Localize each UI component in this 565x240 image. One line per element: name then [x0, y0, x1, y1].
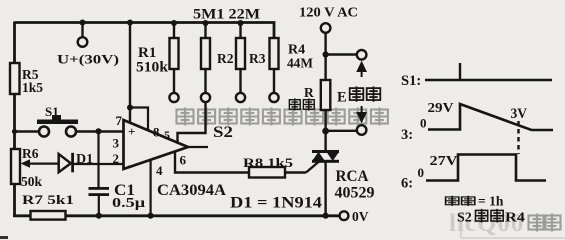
- diode D1: [59, 152, 93, 172]
- junction dot C1 bottom: [96, 213, 102, 219]
- label 负载: [289, 98, 314, 110]
- wire R3 to terminal: [239, 69, 241, 93]
- resistor R8 body: [249, 167, 285, 178]
- dashed marker 3V: [517, 121, 519, 154]
- svg-text:2: 2: [113, 151, 120, 166]
- wire D1 to pin2: [74, 163, 124, 165]
- svg-text:S1: S1: [45, 104, 59, 119]
- svg-text:0: 0: [420, 116, 427, 131]
- svg-text:S1:: S1:: [401, 73, 421, 89]
- waveform 6 labels: [401, 153, 458, 192]
- wire to E top terminal: [326, 53, 357, 55]
- resistor R7 body: [31, 211, 66, 220]
- waveform 3 labels: [401, 101, 527, 143]
- terminal R2 tap: [201, 93, 210, 102]
- caption time (shijian) glyphs: [446, 196, 459, 206]
- junction dot E bottom: [322, 128, 329, 135]
- svg-text:5M1 22M: 5M1 22M: [193, 7, 260, 23]
- wire 120VAC down: [324, 33, 326, 80]
- resistor R7: [22, 192, 74, 220]
- svg-text:6:: 6:: [401, 176, 413, 192]
- resistor R2 body: [201, 38, 210, 69]
- op-amp U1 triangle body: [124, 120, 189, 169]
- svg-text:R4: R4: [505, 211, 525, 226]
- terminal R3 tap: [236, 93, 245, 102]
- waveform S1 trigger spike: [459, 63, 461, 80]
- resistor R8: [243, 155, 306, 178]
- svg-text:44M: 44M: [287, 57, 313, 72]
- wire pin4 down: [150, 160, 152, 216]
- terminal R4 tap: [269, 93, 278, 102]
- svg-text:3: 3: [113, 136, 120, 151]
- svg-text:S2: S2: [457, 211, 472, 226]
- junction dot triac bottom: [323, 213, 329, 219]
- wire rail to R2: [204, 23, 206, 38]
- svg-text:6: 6: [180, 153, 187, 168]
- diode D1 cathode bar: [71, 153, 74, 173]
- resistor R5 body: [10, 63, 20, 94]
- S1 left contact: [39, 127, 49, 137]
- svg-text:510k: 510k: [136, 60, 169, 76]
- svg-text:1k5: 1k5: [22, 80, 43, 95]
- label S2置于R4: [457, 209, 525, 226]
- wire C1 to bottom rail: [98, 195, 100, 216]
- svg-text:CA3094A: CA3094A: [157, 182, 227, 199]
- S1 right contact: [66, 127, 76, 137]
- capacitor C1 top plate: [89, 187, 110, 190]
- terminal R1 tap: [169, 93, 178, 102]
- label E 输出: [337, 86, 380, 105]
- diode D1 triangle: [59, 154, 71, 172]
- junction dot U+ on rail: [80, 20, 86, 26]
- wire pin6 to R8: [175, 152, 249, 173]
- S1 actuator: [52, 115, 61, 120]
- svg-text:3V: 3V: [511, 106, 528, 122]
- svg-text:RCA: RCA: [336, 168, 369, 185]
- junction dot pin4 bottom: [148, 213, 154, 219]
- switch S2 wiper: [178, 101, 206, 143]
- triac RCA 40529: [306, 150, 375, 216]
- arrow E up: [358, 63, 366, 77]
- junction R3 on rail: [238, 20, 244, 26]
- waveform 3 trace: [428, 104, 553, 130]
- resistor R load: [304, 80, 330, 110]
- svg-text:R2: R2: [217, 51, 234, 66]
- wire triac to bottom rail: [324, 163, 326, 217]
- wire pin7 from rail: [129, 23, 131, 122]
- wire left vertical: [13, 22, 16, 217]
- wire R8 to triac gate: [285, 171, 306, 173]
- terminal 0V: [340, 211, 349, 220]
- junction R2 on rail: [203, 20, 209, 26]
- svg-text:+: +: [128, 124, 135, 139]
- watermark 杭州将睿科技有限公司: [177, 108, 388, 126]
- triac bottom bar: [312, 160, 339, 163]
- wire rail to R3: [239, 23, 241, 38]
- wire S1 to pin3: [76, 130, 124, 132]
- junction R1 on rail: [171, 20, 177, 26]
- resistor R2: [201, 20, 234, 102]
- svg-text:R7 5k1: R7 5k1: [22, 192, 74, 207]
- svg-text:R: R: [304, 85, 314, 100]
- wire R1 to terminal: [173, 69, 175, 93]
- junction dot pin7/pin8 branch: [127, 105, 133, 111]
- svg-text:0: 0: [418, 165, 425, 180]
- junction dot E top: [323, 51, 329, 57]
- terminal E bottom: [357, 125, 367, 135]
- svg-text:R8 1k5: R8 1k5: [243, 155, 294, 170]
- wire wiper to D1: [27, 162, 59, 164]
- wire pin8 branch: [130, 108, 148, 131]
- svg-text:7: 7: [116, 113, 123, 128]
- capacitor C1 bottom plate: [89, 193, 110, 196]
- resistor R5: [10, 63, 43, 95]
- S1 pushbutton bar: [37, 120, 78, 125]
- junction dot pin7 rail: [127, 20, 133, 26]
- waveform 6 trace: [426, 155, 546, 181]
- svg-text:U+(30V): U+(30V): [57, 52, 119, 67]
- resistor R3: [236, 20, 266, 102]
- resistor R4 body: [270, 38, 279, 69]
- watermark 维库 logo bottom right: [449, 210, 565, 238]
- arrow E down: [358, 106, 366, 121]
- wire load to triac: [324, 110, 326, 151]
- svg-text:4: 4: [156, 163, 163, 178]
- svg-text:S2: S2: [213, 124, 233, 141]
- wire top rail: [15, 23, 275, 39]
- terminal U+(30V): [78, 37, 88, 47]
- junction dot pin3 node: [95, 128, 101, 134]
- svg-text:R6: R6: [22, 146, 39, 161]
- label 时间 = 1h: [446, 194, 504, 209]
- svg-text:–: –: [127, 157, 135, 172]
- potentiometer R6 body: [11, 149, 20, 184]
- svg-text:R4: R4: [288, 43, 305, 58]
- svg-text:27V: 27V: [430, 153, 458, 168]
- R6 wiper arrow: [21, 159, 31, 168]
- wire bottom rail: [13, 214, 340, 217]
- junction dot S1 left: [12, 129, 17, 134]
- triac gate lead: [306, 162, 319, 173]
- svg-text:= 1h: = 1h: [478, 194, 504, 209]
- svg-text:29V: 29V: [428, 101, 454, 116]
- waveform S1 baseline: [425, 79, 552, 82]
- svg-text:120 V AC: 120 V AC: [299, 6, 358, 21]
- svg-text:5: 5: [164, 128, 170, 142]
- resistor R load body: [321, 80, 331, 110]
- svg-text:D1 = 1N914: D1 = 1N914: [230, 195, 322, 212]
- potentiometer R6: [11, 146, 59, 189]
- triac left triangle: [313, 152, 324, 160]
- svg-text:50k: 50k: [21, 174, 43, 189]
- wire pin6 apex stub: [188, 146, 208, 148]
- wire R2 to terminal: [204, 69, 206, 93]
- svg-text:0.5μ: 0.5μ: [112, 196, 145, 211]
- waveform S1 trace: [425, 63, 552, 80]
- svg-text:E: E: [337, 90, 347, 106]
- terminal 120VAC: [321, 23, 331, 33]
- wire left rail to S1: [16, 130, 39, 132]
- node U+ stub: [81, 23, 83, 38]
- wire rail to R1: [173, 23, 175, 38]
- label load (fuzai) glyphs: [289, 98, 300, 110]
- triac right triangle: [327, 153, 338, 161]
- resistor R4: [269, 38, 313, 102]
- svg-text:3:: 3:: [401, 127, 413, 143]
- wire to E bottom terminal: [326, 130, 357, 132]
- resistor R1: [136, 20, 179, 102]
- resistor R3 body: [236, 38, 245, 69]
- triac top bar: [312, 150, 339, 153]
- op-amp U1 CA3094A: [113, 113, 227, 199]
- wire node down to C1: [97, 132, 99, 188]
- terminal E top: [357, 50, 367, 60]
- svg-text:8: 8: [153, 125, 160, 140]
- resistor R1 body: [170, 38, 179, 69]
- svg-text:0V: 0V: [352, 209, 369, 224]
- capacitor C1: [89, 182, 146, 216]
- svg-text:40529: 40529: [335, 185, 375, 202]
- wire R4 to terminal: [273, 69, 275, 93]
- corner mark bottom left: [0, 236, 8, 239]
- switch S1: [16, 104, 78, 137]
- svg-text:R3: R3: [249, 51, 266, 66]
